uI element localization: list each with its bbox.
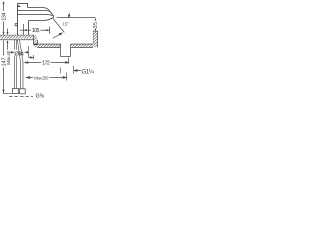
faucet cap right edge [27, 3, 29, 7]
lever top edge [28, 8, 54, 17]
G1-1/4 extension left [59, 68, 61, 74]
dim 147 arrow bottom [2, 90, 4, 93]
deck top surface [0, 34, 34, 36]
jet leader arrow [53, 33, 62, 38]
svg-text:Max.250: Max.250 [34, 76, 49, 81]
step offset arrow [29, 57, 34, 59]
drain flange left [60, 44, 62, 57]
deck hatch upper band [0, 35, 34, 38]
spout top edge with nose chamfer [18, 15, 53, 16]
threaded stud right line [16, 40, 18, 88]
dim Max40 line above deck [7, 29, 9, 34]
svg-text:35: 35 [93, 22, 99, 28]
dim 134 line lower [3, 22, 5, 35]
water jet line [52, 18, 64, 33]
step offset extension [33, 55, 35, 60]
jet angle arrow to line [68, 13, 70, 18]
dim 147 extension at hose end [3, 93, 13, 95]
dim 147 line upper [3, 41, 5, 56]
dim 35 arrow top [95, 18, 97, 21]
dim diam34 arrow right [25, 52, 29, 54]
faucet cap top [18, 3, 28, 5]
svg-text:147: 147 [1, 57, 7, 66]
svg-text:G1¼: G1¼ [82, 69, 95, 75]
dim Max250 line left arrow [26, 77, 33, 79]
dim diam34 text backing [14, 50, 24, 57]
jet angle reference line [57, 17, 96, 19]
faucet body back edge [17, 3, 19, 35]
stud end nut [13, 88, 19, 93]
dim Max40 arrow up at deck bottom [7, 40, 9, 43]
dim Max40 arrow down at deck top [7, 32, 9, 35]
basin bottom top surface right [71, 43, 93, 45]
basin wall top [93, 30, 98, 32]
dim 134 line upper [3, 2, 5, 11]
threaded stud left line [14, 40, 16, 88]
basin wall hatch [93, 31, 97, 47]
dim 172 line left arrow [25, 62, 41, 64]
svg-text:172: 172 [42, 60, 50, 66]
body projection line below deck [28, 46, 30, 58]
dim 172 line right arrow [51, 62, 69, 64]
dim Max250 extension right [66, 73, 68, 81]
G1-1/4 leader arrow [74, 70, 81, 72]
dim 134 arrow bottom [3, 32, 5, 35]
lever hinge wedge [18, 5, 21, 7]
dim 105 extension left [23, 24, 25, 35]
basin bottom hatch right [71, 44, 93, 47]
basin bottom hatch left [37, 44, 61, 47]
spout nose tip [52, 16, 54, 17]
drain flange right [70, 44, 72, 57]
deck step inner edge [36, 40, 38, 48]
dim 35 arrow bottom [95, 29, 97, 31]
svg-text:15°: 15° [62, 21, 69, 26]
svg-text:G⅜: G⅜ [36, 93, 45, 99]
drain flange bottom [61, 56, 71, 58]
dim Max40 line below deck [7, 42, 9, 50]
dim 105 extension right [49, 27, 51, 34]
basin bottom top surface left [34, 43, 61, 45]
dim 134 arrow top [3, 1, 5, 4]
dim 105 arrow right [46, 29, 49, 31]
dim 105 line right segment [40, 29, 49, 31]
hose left line [17, 40, 20, 89]
basin wall right edge [97, 31, 99, 48]
basin wall left edge [93, 31, 95, 44]
deck step hatch [34, 35, 37, 47]
dim 105 arrow left [24, 29, 27, 31]
spout bottom edge [29, 18, 54, 21]
deck step outer edge [33, 35, 35, 44]
G1-1/4 extension right [73, 66, 75, 74]
dim diam34 arrow left [10, 52, 14, 54]
supply level dashed line [9, 96, 33, 98]
body side button circle [15, 24, 17, 26]
deck underside left [0, 39, 37, 41]
lever bottom edge [18, 10, 50, 13]
dim 172 extension right [68, 57, 70, 64]
hose right line [20, 40, 24, 89]
dim 147 line lower [3, 68, 5, 93]
basin bottom underside [37, 47, 93, 49]
svg-text:134: 134 [2, 12, 8, 20]
svg-text:105: 105 [32, 28, 40, 34]
dim Max250 line right arrow [50, 77, 67, 79]
body right edge [28, 21, 30, 36]
dim 105 line left segment [20, 29, 31, 31]
hose end nut [20, 89, 26, 94]
